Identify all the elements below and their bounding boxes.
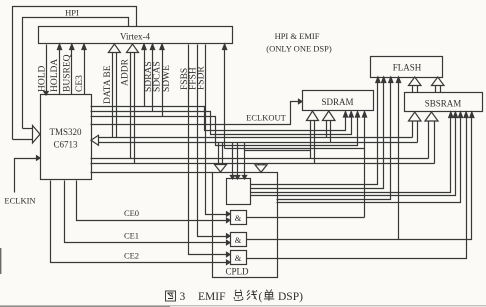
svg-text:&: & <box>235 253 242 263</box>
svg-text:DSP): DSP) <box>278 291 303 303</box>
wire branch from decoder input to SDRAM address shaft <box>245 150 311 152</box>
bus FLASH address from SBSRAM top (hollow arrow) <box>409 77 422 93</box>
svg-text:(: ( <box>259 291 263 303</box>
memory U4 SDRAM <box>303 91 374 111</box>
AND gate G2 <box>231 233 247 247</box>
svg-text:BUSREQ: BUSREQ <box>63 54 73 92</box>
bus branch data down into CPLD (hollow arrow) <box>215 143 227 173</box>
DSP U2 TMS320C6713 <box>41 95 92 180</box>
note HPI and EMIF <box>266 31 332 54</box>
wire CPLD output to FLASH OE <box>277 112 463 203</box>
svg-text:HPI: HPI <box>65 8 79 18</box>
svg-text:ECLKIN: ECLKIN <box>4 196 35 206</box>
svg-text:CE2: CE2 <box>124 251 139 261</box>
wire decoder output 3 to SBSRAM <box>251 112 453 193</box>
FPGA U1 Virtex-4 <box>39 27 233 44</box>
svg-text:3: 3 <box>180 291 186 303</box>
svg-text:ADDR: ADDR <box>121 58 131 86</box>
wire gate G1 output to SDRAM CS <box>247 217 365 219</box>
svg-text:DATA BE: DATA BE <box>103 65 113 104</box>
bus ADDR : address bus up to Virtex-4 (hollow arrow) <box>127 44 139 164</box>
wire FSBS : Virtex-4 down to gate G3 <box>189 45 227 255</box>
svg-text:EMIF: EMIF <box>198 291 225 303</box>
wire decoder output 2 to FLASH <box>251 77 386 189</box>
wire gate G3 output to SBSRAM ADSC <box>247 112 469 259</box>
scan artifact bottom streak <box>0 305 486 306</box>
wire HPI inner loop <box>23 18 129 129</box>
wire HOLDA : DSP up to Virtex-4 <box>59 48 61 95</box>
bus ED data : DSP to SDRAM / SBSRAM / CPLD <box>91 135 418 145</box>
wire FFSH : Virtex-4 down to gate G2 <box>198 45 227 237</box>
bus EA address : DSP to SDRAM / SBSRAM / CPLD <box>91 159 435 164</box>
svg-text:CE0: CE0 <box>124 208 139 218</box>
memory U5 SBSRAM <box>405 93 483 112</box>
svg-text:HOLD: HOLD <box>38 65 48 92</box>
svg-text:&: & <box>235 235 242 245</box>
svg-text:FSDR: FSDR <box>197 66 207 90</box>
AND gate G3 <box>231 251 247 265</box>
wire decoder output 4 to SBSRAM <box>251 112 458 196</box>
wire CE0 from DSP to gate G1 <box>77 181 231 223</box>
decoder U7 inside CPLD <box>227 179 251 205</box>
wire gate G2 output branch to FLASH WE <box>396 77 400 240</box>
wire CE2 from DSP to gate G3 <box>51 181 231 265</box>
svg-text:SDRAM: SDRAM <box>321 97 353 107</box>
wire SDCKE : Virtex-4 to SDRAM control <box>223 44 367 149</box>
svg-text:ECLKOUT: ECLKOUT <box>246 113 286 123</box>
caption figure 3 EMIF bus (single DSP) <box>166 290 304 304</box>
svg-text:SBSRAM: SBSRAM <box>425 99 462 109</box>
wire control strobes from DSP to CPLD <box>91 172 213 174</box>
svg-text:FLASH: FLASH <box>393 63 422 73</box>
wire decoder output 1 to FLASH <box>251 77 381 185</box>
bus FLASH data from SBSRAM top (hollow arrow) <box>432 77 445 93</box>
CPLD U6 outer box <box>213 173 278 278</box>
node ECLKIN <box>4 156 40 206</box>
svg-text:TMS320: TMS320 <box>49 127 82 137</box>
svg-text:Virtex-4: Virtex-4 <box>120 32 150 42</box>
svg-text:SDWE: SDWE <box>162 65 172 92</box>
svg-text:HPI & EMIF: HPI & EMIF <box>275 31 320 41</box>
wire SDWE : to Virtex-4 and SDRAM <box>91 44 360 146</box>
wire SDCAS : to Virtex-4 and SDRAM <box>91 44 354 135</box>
svg-text:&: & <box>235 213 242 223</box>
scan artifact left edge tick <box>0 248 1 274</box>
svg-text:CPLD: CPLD <box>225 267 249 277</box>
wire HPI outer loop <box>13 7 137 140</box>
bus DATA BE : data bus up to Virtex-4 (hollow arrow) <box>108 44 120 138</box>
wire SDRAS : to Virtex-4 and SDRAM <box>91 44 348 131</box>
wire CE1 from DSP to gate G2 <box>65 181 231 245</box>
AND gate G1 <box>231 211 247 225</box>
svg-text:CE3: CE3 <box>75 75 85 92</box>
memory U3 FLASH <box>371 57 443 78</box>
bus address end to SBSRAM (hollow arrow) <box>425 112 438 164</box>
wire ECLKOUT : DSP to SDRAM clock <box>91 99 303 124</box>
wire gate G2 output to SBSRAM CS <box>247 112 474 240</box>
wire HOLD : Virtex-4 down to DSP <box>46 45 48 92</box>
wire BUSREQ : DSP up to Virtex-4 <box>71 48 73 95</box>
wire CPLD output to FLASH WE <box>277 77 393 200</box>
svg-text:CE1: CE1 <box>124 231 139 241</box>
svg-text:(ONLY ONE DSP): (ONLY ONE DSP) <box>266 44 332 54</box>
wire decoder inputs from address bus <box>230 143 246 180</box>
svg-text:HOLDA: HOLDA <box>50 59 60 92</box>
svg-text:C6713: C6713 <box>53 140 78 150</box>
wire FSDR : Virtex-4 down to gate G1 <box>206 45 227 215</box>
bus branch address to SDRAM (hollow arrow) <box>307 111 319 164</box>
wire CE3 : DSP up to Virtex-4 <box>84 48 86 95</box>
bus data end to SBSRAM (hollow arrow) <box>409 112 422 143</box>
bus branch address down into CPLD (hollow arrow) <box>255 164 267 173</box>
bus branch data to SDRAM (hollow arrow) <box>323 111 336 143</box>
bus arrow HPI into DSP left edge <box>23 128 33 130</box>
svg-text:SDCAS: SDCAS <box>153 61 163 92</box>
